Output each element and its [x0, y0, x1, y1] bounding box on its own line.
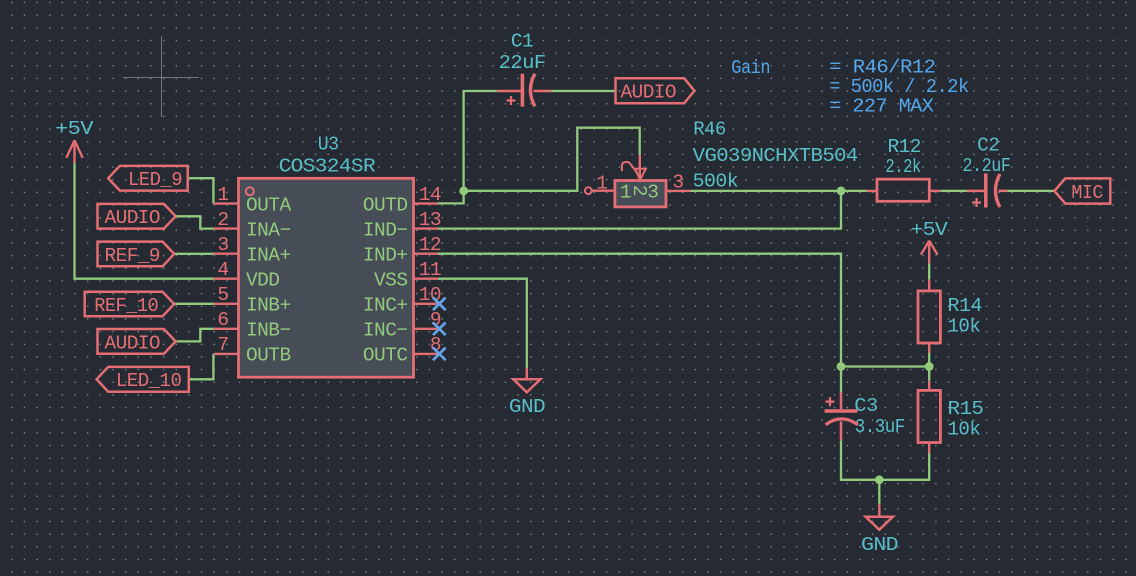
svg-text:IND−: IND− [363, 219, 408, 241]
svg-text:VDD: VDD [246, 269, 279, 291]
svg-text:U3: U3 [318, 134, 339, 156]
svg-text:REF_9: REF_9 [105, 245, 161, 267]
svg-text:14: 14 [419, 184, 441, 206]
svg-text:R46: R46 [693, 119, 726, 141]
svg-text:5: 5 [217, 284, 228, 306]
svg-text:IND+: IND+ [363, 244, 408, 266]
svg-text:= 227 MAX: = 227 MAX [829, 96, 934, 118]
svg-text:3.3uF: 3.3uF [855, 416, 905, 438]
svg-text:1: 1 [596, 172, 607, 194]
svg-text:10k: 10k [948, 315, 981, 337]
svg-text:OUTD: OUTD [363, 194, 408, 216]
svg-text:C2: C2 [977, 134, 999, 156]
svg-text:AUDIO: AUDIO [105, 207, 161, 229]
svg-text:C3: C3 [854, 395, 877, 417]
svg-text:OUTA: OUTA [246, 194, 291, 216]
svg-text:3: 3 [672, 172, 683, 194]
svg-text:INA+: INA+ [246, 244, 291, 266]
svg-text:OUTB: OUTB [246, 345, 291, 367]
svg-text:4: 4 [217, 259, 228, 281]
svg-text:LED_9: LED_9 [128, 169, 182, 191]
svg-text:R12: R12 [888, 136, 921, 158]
svg-text:3: 3 [217, 234, 228, 256]
svg-text:MIC: MIC [1071, 182, 1103, 204]
svg-text:2: 2 [628, 185, 650, 196]
svg-text:22uF: 22uF [499, 52, 546, 74]
svg-text:R15: R15 [948, 398, 984, 420]
svg-text:GND: GND [861, 534, 898, 556]
svg-text:OUTC: OUTC [363, 345, 408, 367]
svg-text:2: 2 [217, 209, 228, 231]
svg-text:7: 7 [217, 334, 228, 356]
svg-text:REF_10: REF_10 [94, 295, 158, 317]
svg-text:2.2uF: 2.2uF [963, 155, 1011, 177]
svg-text:AUDIO: AUDIO [621, 82, 677, 104]
svg-text:Gain: Gain [731, 57, 770, 79]
svg-text:1: 1 [217, 184, 228, 206]
svg-text:INB+: INB+ [246, 295, 291, 317]
svg-text:6: 6 [217, 309, 228, 331]
svg-text:13: 13 [419, 209, 441, 231]
svg-text:INC+: INC+ [363, 295, 408, 317]
svg-text:+5V: +5V [910, 219, 948, 241]
svg-text:12: 12 [419, 234, 441, 256]
svg-text:+5V: +5V [55, 118, 94, 140]
svg-text:LED_10: LED_10 [116, 370, 181, 392]
svg-text:2.2k: 2.2k [885, 156, 920, 178]
svg-text:VG039NCHXTB504: VG039NCHXTB504 [693, 145, 858, 167]
svg-text:COS324SR: COS324SR [279, 156, 376, 178]
svg-text:11: 11 [419, 259, 441, 281]
svg-text:INB−: INB− [246, 320, 291, 342]
svg-text:C1: C1 [511, 31, 533, 53]
svg-text:AUDIO: AUDIO [105, 332, 161, 354]
svg-text:INC−: INC− [363, 320, 408, 342]
svg-text:VSS: VSS [374, 269, 407, 291]
svg-text:GND: GND [509, 396, 545, 418]
svg-text:R14: R14 [948, 295, 982, 317]
svg-text:10k: 10k [948, 419, 981, 441]
svg-text:500k: 500k [693, 171, 738, 193]
svg-text:INA−: INA− [246, 219, 291, 241]
